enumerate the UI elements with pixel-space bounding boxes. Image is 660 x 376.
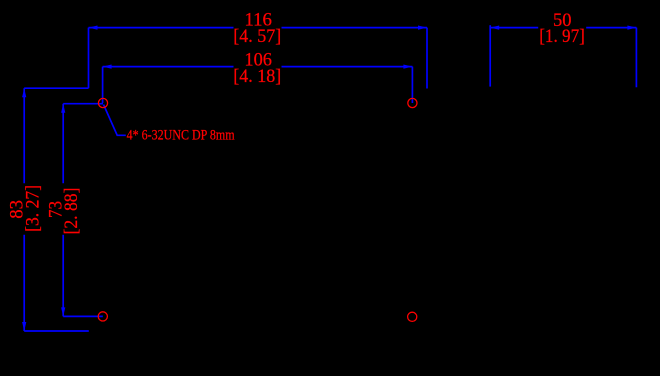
arrowhead 83 bottom [22, 322, 26, 331]
hole bottom-left [98, 312, 107, 321]
hole top-right [408, 98, 417, 107]
dimension 106 [4.18] [103, 67, 413, 103]
dimension 116 [4.57] [89, 28, 428, 89]
svg-text:[3. 27]: [3. 27] [23, 185, 44, 232]
arrowhead 106 right [403, 65, 412, 69]
svg-text:[1. 97]: [1. 97] [539, 26, 585, 47]
arrowhead 50 left [490, 26, 499, 30]
arrowhead 116 right [418, 26, 427, 30]
arrowhead 106 left [103, 65, 112, 69]
svg-text:4* 6-32UNC DP 8mm: 4* 6-32UNC DP 8mm [127, 128, 235, 144]
svg-text:[2. 88]: [2. 88] [61, 188, 82, 235]
hole top-left [98, 98, 107, 107]
svg-text:[4. 18]: [4. 18] [233, 66, 281, 87]
dimension 50 [1.97] [490, 25, 636, 87]
arrowhead 116 left [89, 26, 98, 30]
arrowhead 73 top [61, 104, 65, 113]
arrowhead 50 right [627, 26, 636, 30]
arrowhead 83 top [22, 88, 26, 97]
arrowhead 73 bottom [61, 307, 65, 316]
leader line for thread note [104, 105, 126, 136]
hole bottom-right [408, 312, 417, 321]
svg-text:[4. 57]: [4. 57] [233, 26, 281, 47]
dimension 83 [3.27] [24, 88, 89, 331]
dimension 73 [2.88] [63, 104, 103, 317]
